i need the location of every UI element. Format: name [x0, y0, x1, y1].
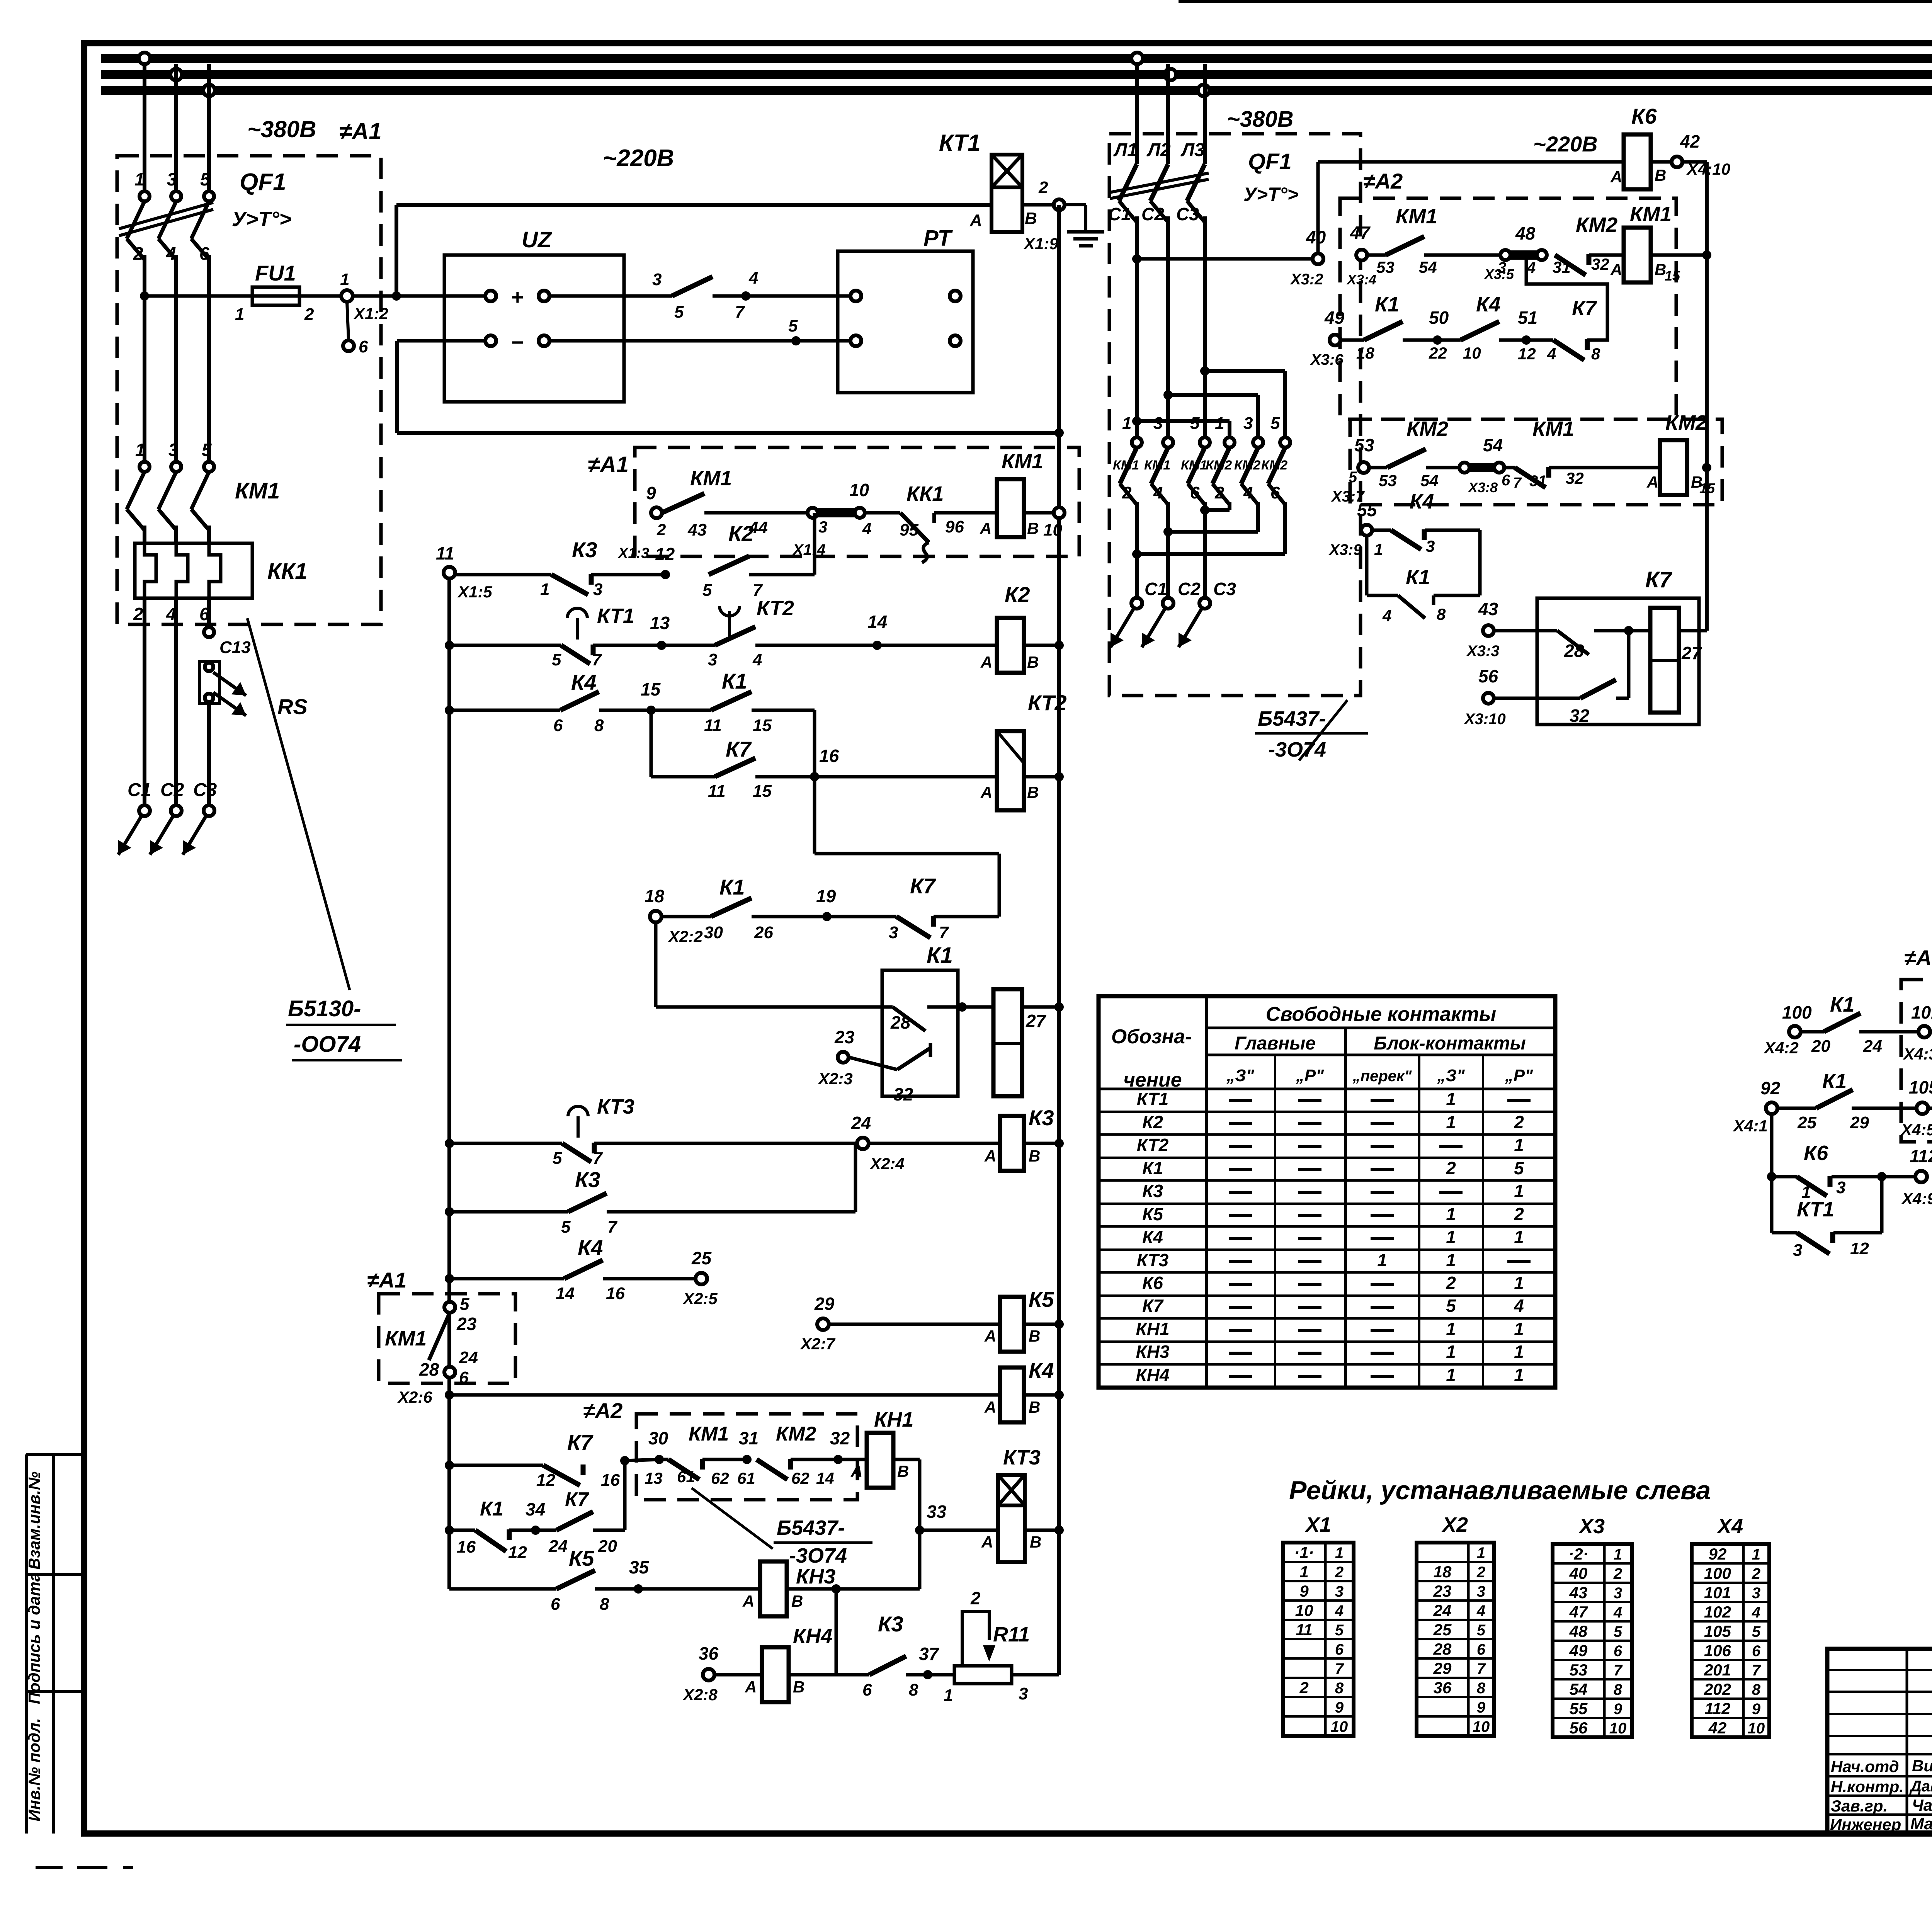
svg-text:КТ3: КТ3 — [1137, 1250, 1169, 1270]
svg-text:5: 5 — [1514, 1158, 1524, 1178]
svg-text:КН3: КН3 — [1136, 1342, 1169, 1362]
svg-text:4: 4 — [1335, 1602, 1344, 1619]
svg-text:1: 1 — [1446, 1250, 1456, 1270]
svg-text:35: 35 — [629, 1557, 650, 1577]
svg-text:К7: К7 — [567, 1430, 594, 1454]
svg-text:Блок-контакты: Блок-контакты — [1374, 1033, 1526, 1054]
svg-text:-3О74: -3О74 — [1268, 738, 1326, 761]
svg-text:5: 5 — [788, 316, 798, 335]
svg-text:А: А — [745, 1678, 757, 1696]
svg-text:1: 1 — [1446, 1342, 1456, 1362]
svg-text:53: 53 — [1376, 258, 1395, 276]
svg-text:А: А — [1610, 168, 1622, 186]
svg-text:5: 5 — [1270, 414, 1280, 433]
svg-text:X3:3: X3:3 — [1466, 643, 1500, 660]
svg-text:К4: К4 — [578, 1235, 603, 1260]
svg-text:2: 2 — [1335, 1564, 1344, 1581]
svg-text:К1: К1 — [480, 1498, 503, 1520]
svg-text:10: 10 — [1609, 1720, 1627, 1737]
svg-text:2: 2 — [1122, 483, 1132, 502]
svg-text:1: 1 — [1215, 414, 1224, 433]
svg-text:А: А — [980, 653, 992, 671]
svg-text:4: 4 — [1547, 345, 1556, 363]
svg-text:9: 9 — [1335, 1699, 1344, 1716]
svg-text:В: В — [1029, 1327, 1040, 1345]
svg-text:7: 7 — [1614, 1662, 1623, 1679]
svg-text:Б5437-: Б5437- — [777, 1516, 845, 1539]
svg-text:23: 23 — [456, 1314, 477, 1334]
svg-text:14: 14 — [867, 612, 887, 632]
svg-text:UZ: UZ — [522, 227, 553, 252]
svg-text:4: 4 — [1514, 1296, 1524, 1316]
svg-text:6: 6 — [1270, 483, 1280, 502]
svg-text:X3:2: X3:2 — [1290, 271, 1323, 288]
svg-text:4: 4 — [1243, 483, 1253, 502]
svg-text:К4: К4 — [571, 670, 597, 694]
svg-text:К3: К3 — [878, 1612, 903, 1636]
svg-text:12: 12 — [655, 544, 675, 564]
svg-text:КТ2: КТ2 — [1028, 691, 1066, 715]
svg-text:X1:3: X1:3 — [617, 545, 649, 561]
svg-text:1: 1 — [1514, 1365, 1524, 1385]
svg-text:61: 61 — [737, 1469, 755, 1487]
svg-text:В: В — [1030, 1533, 1041, 1551]
svg-text:4: 4 — [752, 650, 762, 669]
svg-text:X2:3: X2:3 — [818, 1070, 853, 1088]
svg-text:А: А — [742, 1592, 754, 1610]
svg-text:+: + — [511, 285, 524, 309]
svg-text:≠А1: ≠А1 — [339, 118, 382, 144]
svg-text:49: 49 — [1324, 308, 1345, 328]
svg-text:105: 105 — [1909, 1077, 1932, 1097]
svg-text:3: 3 — [1335, 1583, 1344, 1600]
svg-text:3: 3 — [1019, 1684, 1028, 1703]
svg-text:КМ1: КМ1 — [1532, 417, 1574, 441]
svg-text:X2:7: X2:7 — [800, 1335, 835, 1353]
svg-text:2: 2 — [1214, 483, 1225, 502]
svg-text:5: 5 — [1446, 1296, 1456, 1316]
svg-text:КТ1: КТ1 — [1137, 1089, 1169, 1109]
svg-text:КМ2: КМ2 — [1406, 417, 1448, 441]
svg-text:4: 4 — [862, 519, 871, 537]
svg-text:„Р": „Р" — [1505, 1066, 1533, 1085]
svg-text:3: 3 — [708, 650, 717, 669]
svg-text:К4: К4 — [1410, 490, 1434, 513]
svg-text:~380В: ~380В — [1227, 107, 1294, 132]
svg-text:36: 36 — [1434, 1679, 1452, 1697]
svg-text:10: 10 — [1295, 1601, 1313, 1619]
svg-text:34: 34 — [526, 1499, 545, 1519]
svg-text:1: 1 — [135, 440, 145, 460]
svg-text:43: 43 — [1478, 599, 1498, 619]
svg-text:92: 92 — [1709, 1545, 1727, 1563]
svg-text:6: 6 — [1335, 1641, 1344, 1658]
svg-text:В: В — [1027, 519, 1039, 537]
svg-text:К5: К5 — [569, 1546, 594, 1570]
svg-text:К7: К7 — [1645, 567, 1673, 592]
svg-text:62: 62 — [791, 1469, 810, 1487]
svg-text:Свободные контакты: Свободные контакты — [1266, 1003, 1496, 1026]
svg-text:8: 8 — [1335, 1680, 1344, 1697]
svg-text:9: 9 — [1614, 1701, 1622, 1718]
svg-text:К6: К6 — [1142, 1273, 1163, 1293]
svg-text:X4:9: X4:9 — [1901, 1189, 1932, 1208]
svg-text:42: 42 — [1708, 1719, 1727, 1737]
svg-text:3: 3 — [1243, 414, 1253, 433]
svg-text:106: 106 — [1704, 1641, 1731, 1660]
svg-text:1: 1 — [1377, 1250, 1387, 1270]
svg-text:8: 8 — [1614, 1681, 1622, 1698]
svg-text:2: 2 — [133, 604, 143, 624]
svg-text:9: 9 — [1477, 1699, 1486, 1716]
svg-text:QF1: QF1 — [240, 169, 286, 196]
svg-text:6: 6 — [1752, 1643, 1761, 1660]
svg-text:5: 5 — [1752, 1623, 1761, 1640]
svg-text:Магулария: Магулария — [1910, 1815, 1932, 1833]
svg-text:14: 14 — [816, 1469, 834, 1487]
svg-text:20: 20 — [1811, 1037, 1830, 1056]
svg-text:К2: К2 — [1005, 582, 1030, 607]
svg-text:10: 10 — [849, 480, 869, 500]
svg-text:10: 10 — [1463, 344, 1481, 362]
svg-text:РТ: РТ — [923, 226, 953, 251]
svg-text:X1:9: X1:9 — [1023, 235, 1058, 253]
svg-text:С2: С2 — [1178, 579, 1201, 599]
svg-text:≠А2: ≠А2 — [583, 1398, 622, 1423]
svg-text:22: 22 — [1429, 344, 1447, 362]
svg-text:X2: X2 — [1441, 1513, 1468, 1536]
svg-text:КН4: КН4 — [1136, 1365, 1169, 1385]
svg-text:К1: К1 — [1142, 1158, 1163, 1178]
svg-text:30: 30 — [648, 1428, 668, 1448]
svg-text:25: 25 — [691, 1248, 712, 1268]
svg-text:С1: С1 — [1145, 579, 1167, 599]
svg-text:КК1: КК1 — [267, 559, 308, 584]
svg-text:95: 95 — [900, 520, 918, 539]
svg-text:32: 32 — [893, 1084, 913, 1104]
svg-text:3: 3 — [652, 270, 662, 289]
svg-text:6: 6 — [1614, 1643, 1622, 1660]
svg-text:1: 1 — [944, 1686, 953, 1705]
svg-text:КМ2: КМ2 — [1576, 213, 1617, 236]
svg-text:~220В: ~220В — [603, 145, 674, 172]
svg-text:24: 24 — [1433, 1601, 1452, 1619]
svg-text:2: 2 — [133, 243, 143, 264]
svg-text:А: А — [984, 1398, 996, 1416]
svg-text:X2:8: X2:8 — [682, 1686, 718, 1704]
svg-text:9: 9 — [1752, 1701, 1761, 1718]
svg-text:6: 6 — [551, 1595, 560, 1614]
svg-text:С3: С3 — [1213, 579, 1236, 599]
svg-text:1: 1 — [1335, 1544, 1344, 1561]
svg-text:32: 32 — [1570, 706, 1590, 726]
svg-text:9: 9 — [1299, 1582, 1309, 1600]
svg-text:48: 48 — [1515, 223, 1536, 243]
svg-text:≠А1: ≠А1 — [367, 1268, 406, 1292]
svg-text:-ОО74: -ОО74 — [294, 1032, 361, 1057]
svg-text:Нач.отд: Нач.отд — [1831, 1757, 1899, 1776]
svg-text:12: 12 — [1850, 1239, 1869, 1258]
svg-text:1: 1 — [1514, 1227, 1524, 1247]
svg-text:8: 8 — [1752, 1681, 1761, 1698]
svg-text:100: 100 — [1704, 1564, 1731, 1582]
svg-text:18: 18 — [645, 886, 665, 906]
svg-text:1: 1 — [1752, 1546, 1760, 1563]
svg-text:47: 47 — [1569, 1603, 1588, 1621]
svg-text:42: 42 — [1680, 131, 1700, 151]
svg-text:≠А2: ≠А2 — [1363, 169, 1403, 193]
svg-text:3: 3 — [1477, 1583, 1485, 1600]
svg-text:В: В — [1029, 1147, 1040, 1165]
svg-text:X1: X1 — [1304, 1513, 1331, 1536]
svg-text:4: 4 — [1752, 1604, 1760, 1621]
svg-text:31: 31 — [739, 1428, 759, 1448]
svg-text:~220В: ~220В — [1533, 132, 1598, 156]
svg-text:10: 10 — [1473, 1718, 1490, 1735]
svg-text:7: 7 — [1513, 475, 1522, 491]
svg-text:−: − — [511, 330, 524, 354]
svg-text:5: 5 — [460, 1295, 469, 1314]
svg-text:3: 3 — [1836, 1178, 1845, 1197]
svg-text:К7: К7 — [565, 1488, 589, 1511]
svg-text:53: 53 — [1354, 435, 1374, 455]
svg-text:4: 4 — [1613, 1604, 1622, 1621]
svg-text:КМ1: КМ1 — [1630, 202, 1672, 226]
svg-text:43: 43 — [687, 520, 707, 539]
svg-text:2: 2 — [1446, 1273, 1456, 1293]
svg-text:4: 4 — [1476, 1602, 1485, 1619]
svg-text:11: 11 — [704, 716, 722, 735]
svg-text:Б5437-: Б5437- — [1258, 707, 1326, 730]
svg-text:5: 5 — [202, 440, 212, 460]
svg-text:32: 32 — [1566, 469, 1584, 487]
svg-text:1: 1 — [1514, 1273, 1524, 1293]
svg-text:12: 12 — [536, 1471, 555, 1490]
svg-text:3: 3 — [1752, 1585, 1760, 1602]
svg-text:8: 8 — [909, 1680, 918, 1699]
svg-text:7: 7 — [735, 303, 745, 321]
svg-text:6: 6 — [1502, 472, 1510, 489]
svg-text:11: 11 — [436, 543, 454, 563]
svg-text:29: 29 — [1433, 1659, 1452, 1677]
svg-text:54: 54 — [1570, 1680, 1588, 1698]
svg-text:26: 26 — [754, 923, 773, 942]
svg-text:8: 8 — [1477, 1680, 1486, 1697]
svg-text:К4: К4 — [1476, 293, 1500, 316]
svg-text:202: 202 — [1704, 1680, 1731, 1698]
svg-text:15: 15 — [641, 679, 661, 699]
svg-text:В: В — [1029, 1398, 1040, 1416]
svg-text:1: 1 — [1514, 1135, 1524, 1155]
svg-text:КМ1: КМ1 — [690, 467, 732, 490]
svg-text:1: 1 — [1446, 1089, 1456, 1109]
svg-text:1: 1 — [1446, 1204, 1456, 1224]
svg-text:К5: К5 — [1029, 1287, 1054, 1311]
svg-text:КМ2: КМ2 — [1261, 458, 1287, 473]
svg-text:1: 1 — [1446, 1227, 1456, 1247]
svg-text:7: 7 — [607, 1218, 618, 1237]
svg-text:8: 8 — [1437, 605, 1446, 623]
svg-text:6: 6 — [1190, 483, 1200, 502]
svg-text:12: 12 — [1518, 345, 1536, 363]
svg-text:QF1: QF1 — [1248, 149, 1292, 174]
svg-text:X4:2: X4:2 — [1764, 1039, 1799, 1057]
svg-text:15: 15 — [1699, 480, 1715, 496]
svg-text:49: 49 — [1569, 1641, 1588, 1660]
svg-text:24: 24 — [548, 1537, 568, 1556]
svg-text:X2:4: X2:4 — [869, 1155, 905, 1173]
svg-text:102: 102 — [1704, 1603, 1731, 1621]
svg-text:55: 55 — [1570, 1699, 1588, 1718]
svg-text:10: 10 — [1331, 1718, 1348, 1735]
svg-text:X1:5: X1:5 — [457, 583, 492, 601]
svg-text:5: 5 — [1349, 469, 1357, 486]
svg-text:КТ3: КТ3 — [597, 1095, 634, 1118]
svg-text:КМ1: КМ1 — [1181, 458, 1207, 473]
svg-text:1: 1 — [1514, 1181, 1524, 1201]
svg-text:47: 47 — [1350, 223, 1371, 243]
svg-text:КМ1: КМ1 — [1113, 458, 1139, 473]
svg-text:24: 24 — [851, 1113, 871, 1133]
svg-text:48: 48 — [1569, 1622, 1588, 1640]
svg-text:2: 2 — [970, 1588, 981, 1608]
svg-text:7: 7 — [1752, 1662, 1761, 1679]
svg-text:КТ2: КТ2 — [1137, 1135, 1169, 1155]
svg-text:2: 2 — [656, 520, 666, 539]
svg-text:10: 10 — [1748, 1720, 1765, 1737]
svg-text:К2: К2 — [1142, 1112, 1163, 1132]
svg-text:53: 53 — [1570, 1661, 1588, 1679]
svg-text:X3:8: X3:8 — [1468, 480, 1498, 495]
svg-text:101: 101 — [1704, 1584, 1731, 1602]
svg-text:Подпись и дата: Подпись и дата — [25, 1573, 43, 1704]
svg-text:В: В — [1025, 209, 1037, 228]
svg-text:7: 7 — [593, 1149, 603, 1168]
svg-text:X3:10: X3:10 — [1464, 711, 1506, 728]
svg-text:1: 1 — [1514, 1342, 1524, 1362]
svg-text:5: 5 — [552, 650, 561, 669]
svg-text:X4:1: X4:1 — [1733, 1117, 1768, 1135]
svg-text:3: 3 — [1614, 1585, 1622, 1602]
svg-text:20: 20 — [598, 1537, 617, 1556]
svg-text:Рейки, устанавливаемые слева: Рейки, устанавливаемые слева — [1289, 1476, 1711, 1505]
svg-text:28: 28 — [419, 1359, 439, 1379]
svg-text:С13: С13 — [219, 638, 251, 657]
svg-text:28: 28 — [1433, 1640, 1452, 1658]
svg-text:30: 30 — [704, 923, 723, 942]
svg-text:≠А1: ≠А1 — [1904, 946, 1932, 970]
svg-text:А: А — [850, 1462, 862, 1480]
svg-text:Обозна-: Обозна- — [1111, 1026, 1192, 1048]
svg-text:Зав.гр.: Зав.гр. — [1831, 1797, 1888, 1815]
svg-text:К1: К1 — [722, 669, 747, 693]
svg-text:А: А — [1646, 473, 1658, 491]
svg-text:16: 16 — [457, 1538, 476, 1556]
svg-text:КТ1: КТ1 — [597, 604, 634, 628]
svg-text:32: 32 — [1591, 255, 1609, 273]
svg-text:К6: К6 — [1631, 104, 1657, 128]
svg-text:В: В — [1655, 166, 1666, 184]
svg-text:14: 14 — [556, 1284, 575, 1303]
svg-text:101: 101 — [1911, 1002, 1932, 1022]
svg-text:Инв.№ подл.: Инв.№ подл. — [25, 1718, 43, 1821]
svg-text:15: 15 — [1665, 268, 1680, 284]
svg-text:К7: К7 — [910, 874, 936, 898]
svg-text:КМ2: КМ2 — [1206, 458, 1232, 473]
svg-text:33: 33 — [927, 1502, 947, 1522]
svg-text:3: 3 — [1426, 537, 1435, 555]
svg-text:28: 28 — [890, 1012, 911, 1032]
svg-text:2: 2 — [1514, 1112, 1524, 1132]
svg-text:7: 7 — [592, 650, 602, 669]
svg-text:Вишневский: Вишневский — [1912, 1757, 1932, 1775]
svg-text:1: 1 — [1446, 1112, 1456, 1132]
svg-text:Взам.инв.№: Взам.инв.№ — [25, 1471, 43, 1570]
svg-text:5: 5 — [1190, 414, 1200, 433]
svg-text:28: 28 — [1564, 641, 1584, 661]
svg-text:2: 2 — [1514, 1204, 1524, 1224]
svg-text:КМ1: КМ1 — [1144, 458, 1170, 473]
svg-text:27: 27 — [1026, 1011, 1047, 1031]
svg-text:11: 11 — [708, 782, 726, 801]
svg-text:2: 2 — [1038, 178, 1048, 197]
svg-text:24: 24 — [1863, 1037, 1882, 1056]
svg-text:В: В — [791, 1592, 803, 1610]
svg-text:Л1: Л1 — [1113, 140, 1138, 160]
svg-text:КН1: КН1 — [874, 1408, 913, 1431]
svg-text:КТ1: КТ1 — [1797, 1198, 1834, 1221]
svg-text:9: 9 — [646, 483, 656, 503]
svg-text:61: 61 — [677, 1468, 695, 1486]
svg-text:56: 56 — [1478, 666, 1498, 686]
svg-text:X3:5: X3:5 — [1484, 266, 1514, 282]
svg-text:„Р": „Р" — [1296, 1066, 1324, 1085]
svg-text:3: 3 — [889, 923, 898, 942]
svg-text:54: 54 — [1483, 435, 1503, 455]
svg-text:36: 36 — [699, 1643, 719, 1663]
svg-text:24: 24 — [459, 1348, 478, 1367]
svg-text:К3: К3 — [1142, 1181, 1163, 1201]
svg-text:7: 7 — [1335, 1660, 1344, 1677]
svg-text:Чаруева: Чаруева — [1912, 1796, 1932, 1814]
svg-text:КН3: КН3 — [796, 1565, 835, 1588]
svg-text:X3:4: X3:4 — [1346, 272, 1376, 287]
svg-text:29: 29 — [814, 1294, 835, 1314]
svg-text:К7: К7 — [1142, 1296, 1164, 1316]
svg-text:КМ2: КМ2 — [1234, 458, 1260, 473]
svg-text:3: 3 — [168, 440, 179, 460]
svg-text:В: В — [897, 1462, 909, 1480]
svg-text:Давлианидзе: Давлианидзе — [1909, 1778, 1932, 1795]
svg-text:К7: К7 — [726, 737, 752, 761]
svg-text:Главные: Главные — [1235, 1033, 1316, 1054]
svg-text:К4: К4 — [1142, 1227, 1163, 1247]
svg-text:5: 5 — [1477, 1622, 1486, 1639]
svg-text:7: 7 — [1477, 1660, 1486, 1677]
svg-text:6: 6 — [459, 1368, 469, 1387]
svg-text:92: 92 — [1760, 1078, 1781, 1098]
svg-text:К3: К3 — [1029, 1106, 1054, 1130]
svg-text:112: 112 — [1910, 1146, 1932, 1166]
svg-text:К6: К6 — [1804, 1141, 1828, 1165]
svg-text:15: 15 — [753, 782, 772, 801]
svg-text:Б5130-: Б5130- — [288, 996, 361, 1021]
svg-text:КТ1: КТ1 — [939, 130, 981, 156]
svg-text:С3: С3 — [1176, 204, 1199, 224]
svg-text:1: 1 — [1299, 1563, 1308, 1581]
svg-text:КМ1: КМ1 — [235, 478, 280, 503]
svg-text:6: 6 — [1477, 1641, 1486, 1658]
